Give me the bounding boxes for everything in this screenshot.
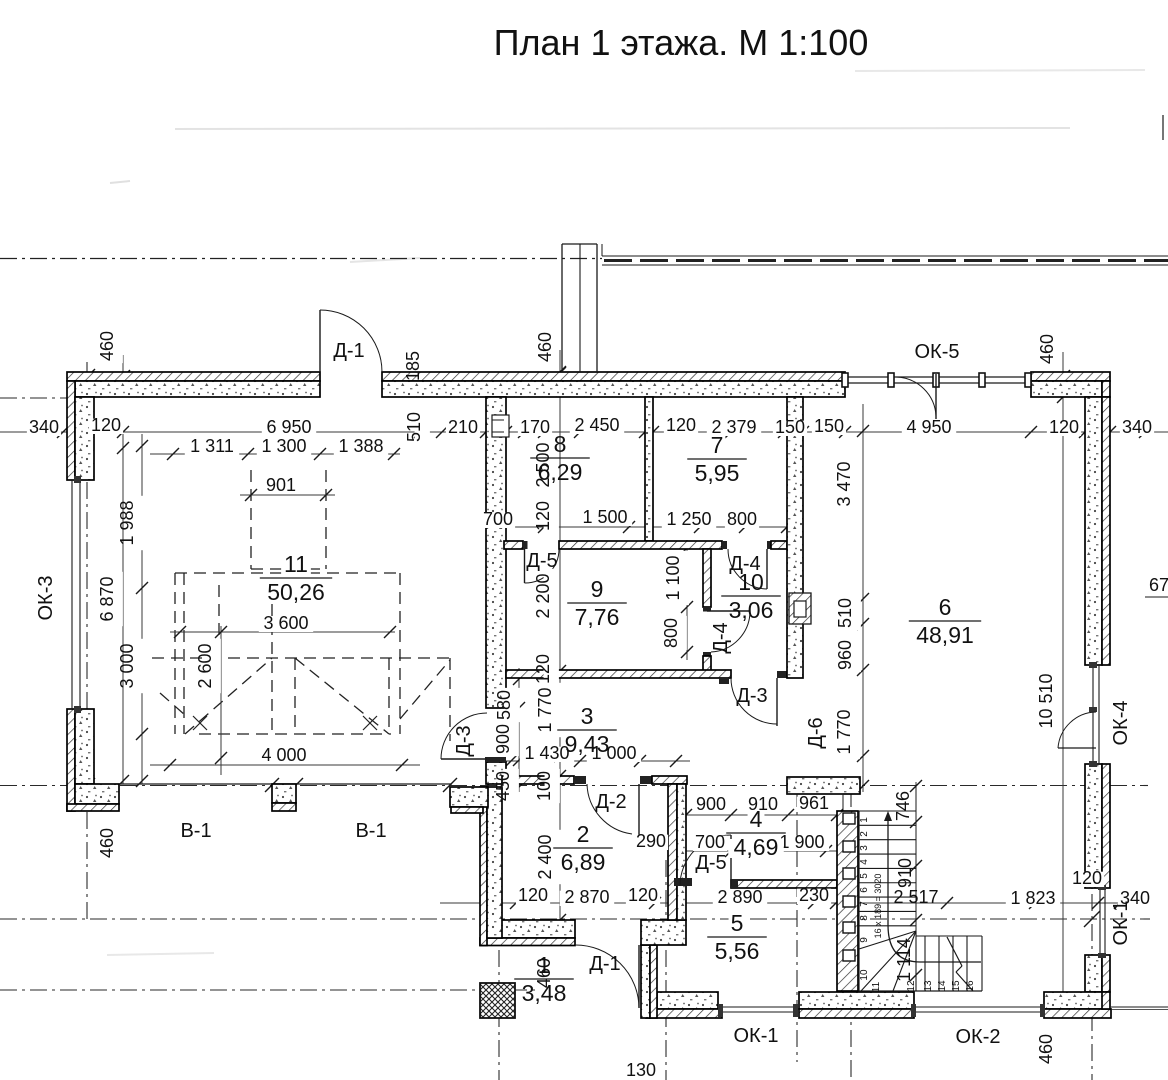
svg-text:170: 170 <box>520 417 550 437</box>
svg-text:11: 11 <box>871 981 882 992</box>
svg-text:1 250: 1 250 <box>666 509 711 529</box>
svg-text:3 000: 3 000 <box>117 643 137 688</box>
svg-text:Д-3: Д-3 <box>453 725 475 756</box>
svg-text:120: 120 <box>91 415 121 435</box>
svg-text:ОК-3: ОК-3 <box>35 576 57 621</box>
svg-text:7: 7 <box>859 901 870 907</box>
svg-text:7,76: 7,76 <box>575 604 620 630</box>
svg-text:Д-4: Д-4 <box>710 622 732 653</box>
svg-text:460: 460 <box>535 332 555 362</box>
svg-text:Д-2: Д-2 <box>595 791 626 813</box>
svg-text:ОК-2: ОК-2 <box>956 1026 1001 1048</box>
svg-text:3: 3 <box>581 703 594 729</box>
svg-text:67: 67 <box>1149 575 1168 595</box>
svg-text:150: 150 <box>775 417 805 437</box>
svg-text:Д-5: Д-5 <box>526 550 557 572</box>
svg-text:7: 7 <box>711 432 724 458</box>
svg-text:ОК-5: ОК-5 <box>915 341 960 363</box>
svg-text:15: 15 <box>951 980 962 992</box>
svg-text:2 450: 2 450 <box>574 415 619 435</box>
svg-text:460: 460 <box>1036 1034 1056 1064</box>
svg-text:2 890: 2 890 <box>717 887 762 907</box>
svg-text:1 900: 1 900 <box>779 832 824 852</box>
svg-text:11: 11 <box>284 551 308 577</box>
svg-text:4 000: 4 000 <box>261 745 306 765</box>
svg-text:2 600: 2 600 <box>195 643 215 688</box>
svg-text:16 x 189 = 3020: 16 x 189 = 3020 <box>873 874 883 939</box>
svg-text:План 1 этажа. М 1:100: План 1 этажа. М 1:100 <box>494 22 869 63</box>
svg-text:6 950: 6 950 <box>266 417 311 437</box>
svg-text:120: 120 <box>533 501 553 531</box>
svg-text:12: 12 <box>906 980 917 992</box>
svg-text:510: 510 <box>404 412 424 442</box>
svg-text:120: 120 <box>628 885 658 905</box>
svg-text:1 311: 1 311 <box>190 436 234 456</box>
svg-text:580: 580 <box>494 690 514 720</box>
svg-text:746: 746 <box>893 791 913 821</box>
svg-text:460: 460 <box>97 331 117 361</box>
svg-text:4: 4 <box>859 859 870 865</box>
svg-text:2 517: 2 517 <box>893 887 938 907</box>
svg-text:900: 900 <box>493 724 513 754</box>
svg-text:4 950: 4 950 <box>906 417 951 437</box>
svg-text:150: 150 <box>814 416 844 436</box>
svg-text:340: 340 <box>1122 417 1152 437</box>
svg-text:1 770: 1 770 <box>834 709 854 754</box>
svg-text:3,48: 3,48 <box>522 980 567 1006</box>
svg-text:120: 120 <box>666 415 696 435</box>
svg-text:960: 960 <box>835 640 855 670</box>
svg-text:1 114: 1 114 <box>894 938 914 982</box>
svg-text:910: 910 <box>895 858 915 888</box>
svg-text:14: 14 <box>937 980 948 992</box>
svg-text:901: 901 <box>266 475 296 495</box>
svg-text:6,89: 6,89 <box>561 849 606 875</box>
svg-text:10: 10 <box>859 969 870 981</box>
svg-text:9: 9 <box>859 937 870 943</box>
svg-text:13: 13 <box>923 980 934 992</box>
svg-text:Д-6: Д-6 <box>805 717 827 748</box>
svg-text:4: 4 <box>750 806 763 832</box>
svg-text:120: 120 <box>1072 868 1102 888</box>
svg-text:5,56: 5,56 <box>715 938 760 964</box>
svg-text:100: 100 <box>534 771 554 801</box>
svg-text:1 430: 1 430 <box>524 743 569 763</box>
svg-text:900: 900 <box>696 794 726 814</box>
svg-text:6 870: 6 870 <box>97 576 117 621</box>
svg-text:1 988: 1 988 <box>117 500 137 545</box>
svg-text:340: 340 <box>29 417 59 437</box>
svg-text:5: 5 <box>859 873 870 879</box>
svg-text:ОК-1: ОК-1 <box>1110 901 1132 946</box>
svg-text:8: 8 <box>859 915 870 921</box>
svg-text:1 388: 1 388 <box>338 436 383 456</box>
svg-text:700: 700 <box>695 832 725 852</box>
svg-text:10 510: 10 510 <box>1036 673 1056 728</box>
svg-text:8: 8 <box>554 431 567 457</box>
svg-text:130: 130 <box>626 1060 656 1080</box>
svg-text:3 470: 3 470 <box>834 461 854 506</box>
svg-text:1 823: 1 823 <box>1010 888 1055 908</box>
svg-text:1 300: 1 300 <box>261 436 306 456</box>
svg-text:1: 1 <box>859 817 870 823</box>
svg-text:290: 290 <box>636 831 666 851</box>
svg-text:В-1: В-1 <box>180 820 211 842</box>
svg-text:120: 120 <box>533 654 553 684</box>
svg-text:460: 460 <box>1037 334 1057 364</box>
svg-text:3: 3 <box>859 845 870 851</box>
svg-text:6,29: 6,29 <box>538 459 583 485</box>
svg-text:9: 9 <box>591 576 604 602</box>
svg-text:Д-1: Д-1 <box>333 340 364 362</box>
svg-text:6: 6 <box>859 887 870 893</box>
svg-text:Д-3: Д-3 <box>736 685 767 707</box>
svg-text:48,91: 48,91 <box>916 622 974 648</box>
svg-text:1 500: 1 500 <box>582 507 627 527</box>
svg-text:В-1: В-1 <box>355 820 386 842</box>
svg-text:1 100: 1 100 <box>663 555 683 600</box>
svg-text:5: 5 <box>731 910 744 936</box>
svg-text:460: 460 <box>97 828 117 858</box>
svg-text:230: 230 <box>799 885 829 905</box>
svg-text:50,26: 50,26 <box>267 579 325 605</box>
svg-text:Д-4: Д-4 <box>729 553 760 575</box>
svg-text:2 200: 2 200 <box>533 573 553 618</box>
svg-text:800: 800 <box>661 618 681 648</box>
svg-text:3 600: 3 600 <box>263 613 308 633</box>
svg-text:ОК-4: ОК-4 <box>1110 701 1132 746</box>
svg-text:800: 800 <box>727 509 757 529</box>
svg-text:2 870: 2 870 <box>564 887 609 907</box>
svg-text:1: 1 <box>538 952 551 978</box>
svg-text:510: 510 <box>835 598 855 628</box>
svg-text:210: 210 <box>448 417 478 437</box>
svg-text:Д-5: Д-5 <box>695 852 726 874</box>
svg-text:5,95: 5,95 <box>695 460 740 486</box>
svg-text:961: 961 <box>799 793 829 813</box>
svg-text:ОК-1: ОК-1 <box>734 1025 779 1047</box>
svg-text:120: 120 <box>1049 417 1079 437</box>
svg-text:2: 2 <box>859 831 870 837</box>
svg-text:1 770: 1 770 <box>535 687 555 732</box>
svg-text:4,69: 4,69 <box>734 834 779 860</box>
svg-text:Д-1: Д-1 <box>589 953 620 975</box>
svg-text:3,06: 3,06 <box>729 597 774 623</box>
svg-text:9,43: 9,43 <box>565 731 610 757</box>
svg-text:120: 120 <box>518 885 548 905</box>
svg-text:16: 16 <box>965 980 976 992</box>
svg-text:6: 6 <box>939 594 952 620</box>
svg-text:450: 450 <box>493 771 513 801</box>
svg-text:185: 185 <box>403 351 423 381</box>
svg-text:700: 700 <box>483 509 513 529</box>
svg-text:2 400: 2 400 <box>535 834 555 879</box>
svg-text:2: 2 <box>577 821 590 847</box>
